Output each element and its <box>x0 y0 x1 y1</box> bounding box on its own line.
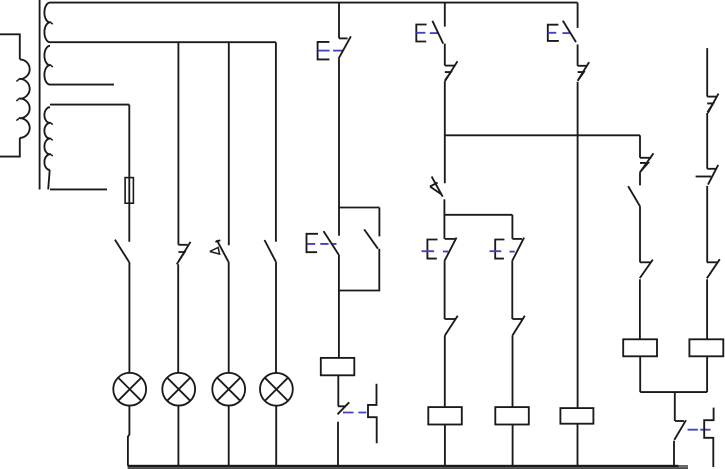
contact NO (manual) <box>628 186 640 206</box>
wire column E6 upper <box>511 215 513 239</box>
wire column S2 upper <box>177 42 179 245</box>
wire K3 contact to coil K3 <box>512 336 514 407</box>
wire stub tap t3 <box>50 84 114 86</box>
wire column S4 upper <box>275 42 277 242</box>
wire junction to overload F3 <box>674 392 676 421</box>
wire S4 to lamp H4 <box>275 262 277 373</box>
wire to NO contact <box>639 173 641 186</box>
pushbutton E2 NO contact <box>432 21 443 44</box>
pushbutton E6 NC contact <box>512 238 524 262</box>
wire main through loop <box>338 208 340 236</box>
wire coil K5 to bottom junction <box>639 356 641 392</box>
contact K2 NC <box>445 316 458 336</box>
wire column K6 top <box>706 48 708 97</box>
bottom rail gray band <box>128 467 688 469</box>
pushbutton E4 NO contact <box>324 231 339 254</box>
pushbutton E2 button <box>416 25 439 42</box>
contact K5b NC (flag) <box>640 153 654 172</box>
overload contact F2 <box>338 402 350 414</box>
wire NC to coil K4 <box>577 82 579 408</box>
wire fuse column upper <box>128 105 130 204</box>
contact K5 NC (flag) <box>445 61 458 81</box>
wire column E1 from top rail <box>338 3 340 39</box>
wire E4 to node B <box>338 255 340 291</box>
pushbutton E5 button <box>422 240 449 259</box>
coil K5 <box>623 339 657 356</box>
transformer T1 secondary winding 2 <box>44 107 52 189</box>
coil K1 <box>321 358 355 375</box>
bottom rail (thick) <box>128 465 679 467</box>
wire E2 to NC contact <box>444 44 446 66</box>
contact thermal NC (left bar) <box>696 165 719 185</box>
fuse F1 <box>125 178 133 204</box>
wire S2 to lamp H2 <box>177 264 179 373</box>
wire bottom junction (y392) <box>640 391 707 393</box>
wire E3 to NC contact <box>577 45 579 66</box>
wire B1 to node D <box>443 199 445 239</box>
wire column K5 from node C <box>639 135 641 158</box>
overload contact F3 <box>674 420 686 440</box>
wire loop right upper <box>378 208 380 237</box>
wire lamp rail L2 <box>50 41 276 43</box>
pushbutton E5 NC contact <box>444 238 456 262</box>
node A branch: parallel loop top <box>339 207 379 209</box>
coil K6 <box>689 339 723 356</box>
contact K6 NC (flag) <box>578 62 590 81</box>
wire loop right lower <box>339 249 379 291</box>
wire to coil K5 <box>639 279 641 339</box>
pushbutton E1 button <box>318 42 343 60</box>
wire column E2 from top rail <box>444 3 446 27</box>
wire to NC-E contact <box>706 113 708 169</box>
transformer T1 secondary winding 1 <box>44 3 52 85</box>
switch S3 (NC with flag, mirrored) <box>210 240 229 262</box>
wire K2 contact to coil K2 <box>444 336 446 407</box>
node C link wire (y135) <box>445 134 640 136</box>
transformer T1 core <box>39 0 41 190</box>
contact K6b NC (flag) <box>707 94 718 113</box>
actuator bracket F2 <box>368 384 377 444</box>
wire lamp H1 to rail <box>128 406 129 466</box>
pushbutton E3 button <box>548 25 570 41</box>
pushbutton E6 button <box>490 240 515 259</box>
wire K1 to overload contact <box>337 375 339 406</box>
lamp H4 <box>260 373 293 406</box>
wire top rail L1 <box>50 2 578 4</box>
contact K3 NC <box>512 316 525 336</box>
lamp H1 <box>113 373 146 406</box>
contact K1 aux (loop) <box>364 229 378 248</box>
wire F3 to rail <box>673 441 675 466</box>
switch S1 <box>115 240 129 262</box>
lamp H3 <box>212 373 245 406</box>
switch S2 (NC with flag) <box>177 242 191 264</box>
coil K3 <box>495 407 529 424</box>
wire E5 to contact K2 <box>444 261 446 319</box>
wire tap t4 to fuse column <box>50 104 129 106</box>
pushbutton E1 NC contact <box>339 36 351 58</box>
mechanical link F3 (dashed) <box>688 429 711 431</box>
wire column E3 from top rail <box>577 3 579 28</box>
actuator bracket F3 <box>704 408 713 468</box>
wire lamp H2 to rail <box>177 406 179 466</box>
pushbutton E3 NO contact <box>563 21 576 42</box>
wire NC to node C <box>444 81 446 183</box>
wire E6 to contact K3 <box>511 261 513 319</box>
contact K6c NC <box>707 259 720 278</box>
wire coil K3 to rail <box>512 425 514 466</box>
wire lamp H4 to rail <box>275 406 277 466</box>
wire coil K4 to rail <box>577 424 579 466</box>
wire to coil K6 <box>706 279 708 339</box>
limit switch B1 <box>430 177 443 197</box>
wire node B to coil K1 <box>338 291 340 358</box>
transformer T1 primary winding <box>0 34 30 156</box>
node D branch wire (y214.8) <box>445 214 513 216</box>
wire coil K6 to bottom junction <box>706 356 708 392</box>
wire S3 to lamp H3 <box>228 262 230 373</box>
lamp H2 <box>162 373 195 406</box>
wire to K6c <box>706 186 708 262</box>
wire coil K2 to rail <box>444 425 446 466</box>
coil K2 <box>428 407 462 424</box>
wire column S3 upper <box>228 42 230 245</box>
contact K5c NC <box>640 260 653 279</box>
mechanical link F2 (dashed) <box>343 412 366 414</box>
wire to K5c <box>639 206 641 262</box>
pushbutton E4 button <box>307 234 337 252</box>
wire S1 to lamp H1 <box>128 262 130 373</box>
wire E1 to node A <box>338 59 340 208</box>
wire fuse to switch S1 <box>128 203 130 242</box>
switch S4 <box>265 240 276 262</box>
coil K4 <box>560 408 593 424</box>
wire F2 to rail <box>337 422 339 466</box>
wire stub tap t5 <box>50 188 107 190</box>
wire lamp H3 to rail <box>228 406 230 466</box>
